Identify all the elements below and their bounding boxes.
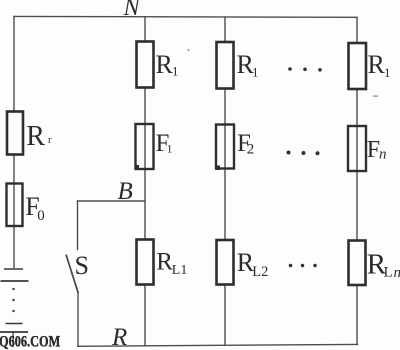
svg-text:n: n: [394, 265, 400, 281]
svg-text:R: R: [156, 248, 173, 275]
svg-text:N: N: [123, 0, 142, 21]
svg-text:R: R: [26, 121, 45, 152]
svg-text:1: 1: [252, 65, 259, 80]
svg-text:R: R: [156, 50, 174, 79]
svg-text:0: 0: [37, 208, 45, 224]
svg-text:S: S: [75, 251, 89, 280]
svg-text:2: 2: [247, 142, 255, 158]
svg-text:Q606.COM: Q606.COM: [0, 333, 61, 350]
svg-text:R: R: [111, 324, 127, 350]
svg-text:n: n: [379, 147, 387, 163]
svg-text:L: L: [384, 265, 393, 281]
svg-text:1: 1: [172, 64, 179, 79]
svg-text:R: R: [368, 50, 386, 79]
svg-text:L2: L2: [252, 264, 268, 280]
svg-text:1: 1: [167, 142, 173, 156]
svg-text:L1: L1: [172, 263, 188, 278]
svg-text:B: B: [118, 178, 133, 205]
svg-text:r: r: [48, 135, 52, 146]
svg-text:1: 1: [384, 65, 391, 80]
